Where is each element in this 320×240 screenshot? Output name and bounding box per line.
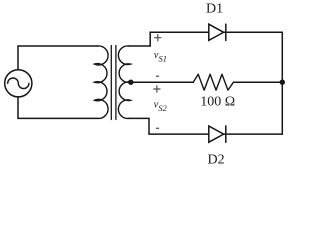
resistor R1 100 ohm — [193, 74, 233, 90]
center tap junction dot — [128, 80, 133, 85]
diode D2 cathode bar — [225, 126, 227, 142]
svg-text:D1: D1 — [206, 2, 223, 17]
polarity plus for vS2 — [153, 85, 160, 92]
wire: secondary bottom to D2 anode — [129, 118, 209, 134]
AC source V1 — [5, 70, 32, 97]
transformer core line right — [115, 46, 117, 120]
wire: primary bottom to source bottom — [18, 97, 98, 119]
svg-text:vS1: vS1 — [154, 50, 167, 64]
svg-text:vS2: vS2 — [154, 99, 168, 113]
polarity minus for vS2 — [156, 127, 159, 129]
transformer primary winding — [95, 46, 109, 119]
diode D1 cathode bar — [225, 24, 227, 40]
svg-text:D2: D2 — [208, 152, 225, 167]
wire: secondary top to D1 anode — [129, 32, 209, 46]
transformer secondary winding — [118, 46, 130, 118]
transformer core line left — [110, 46, 112, 120]
diode D1 — [209, 24, 224, 40]
polarity minus for vS1 — [156, 75, 159, 77]
diode D2 — [209, 126, 224, 142]
AC sine symbol — [8, 78, 29, 89]
wire: D2 cathode to right rail — [224, 133, 283, 135]
wire: resistor to right rail junction — [234, 81, 283, 83]
wire: center tap to resistor — [131, 81, 193, 83]
wire: D1 cathode to right rail — [224, 31, 283, 33]
junction node at right rail — [280, 80, 285, 85]
polarity plus for vS1 — [154, 34, 161, 41]
wire: right rail vertical — [281, 32, 283, 134]
wire: source top to primary top — [18, 46, 98, 70]
svg-text:100 Ω: 100 Ω — [200, 95, 235, 110]
